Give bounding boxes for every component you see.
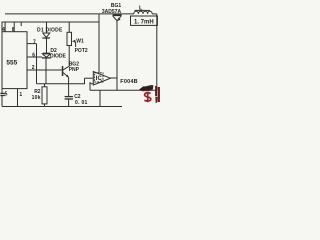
svg-text:3AD57A: 3AD57A bbox=[102, 9, 122, 15]
pin 1 lead bbox=[17, 89, 19, 107]
svg-text:1. 7mH: 1. 7mH bbox=[134, 19, 154, 25]
wire U1 output bbox=[111, 77, 118, 79]
svg-text:POT2: POT2 bbox=[75, 48, 88, 54]
svg-text:8: 8 bbox=[12, 27, 15, 33]
svg-text:0. 01: 0. 01 bbox=[75, 100, 88, 106]
svg-text:R2: R2 bbox=[34, 89, 41, 95]
wire left edge lower bbox=[1, 96, 3, 107]
capacitor C1 plates (left edge) bbox=[0, 92, 5, 94]
svg-text:DIODE: DIODE bbox=[50, 54, 67, 60]
stub x21 bbox=[20, 22, 22, 26]
potentiometer W1 wiper arrow bbox=[72, 40, 75, 43]
resistor R2 bbox=[44, 84, 46, 87]
capacitor C2 plates bbox=[65, 96, 73, 98]
wire D2 down to mid wire bbox=[45, 58, 47, 83]
IC 555 box bbox=[2, 32, 27, 89]
svg-text:F004B: F004B bbox=[120, 79, 138, 85]
diode D2 bbox=[43, 52, 50, 54]
svg-text:W1: W1 bbox=[76, 39, 84, 45]
label IC1 dashed box bbox=[95, 73, 103, 82]
wire right edge bbox=[156, 14, 158, 90]
wire bottom rail bbox=[2, 106, 122, 108]
pin 7 stub bbox=[27, 43, 37, 45]
wire junction vertical x99 bbox=[98, 14, 100, 74]
svg-text:C2: C2 bbox=[74, 94, 81, 100]
wire long bottom horizontal bbox=[90, 89, 157, 91]
wire base line of BG1 (upper horizontal) bbox=[5, 13, 134, 15]
diode D1 lead from rail bbox=[46, 22, 48, 33]
wire riser mid to input bbox=[84, 78, 86, 84]
diode D1 bbox=[43, 33, 50, 37]
wire left edge upper bbox=[1, 22, 3, 93]
inductor L coil bbox=[134, 11, 152, 14]
transistor Q1 collector diagonal left bbox=[113, 16, 117, 21]
wire loop left leg bbox=[89, 82, 91, 90]
wire V1 pins7-6 junction down bbox=[36, 44, 38, 84]
pin 2 wire to BG2 base bbox=[27, 69, 62, 71]
wire riser to bottom rail bbox=[99, 90, 101, 106]
svg-text:7: 7 bbox=[33, 39, 36, 45]
svg-text:PNP: PNP bbox=[69, 67, 80, 73]
wire pot bottom to BG2 collector bbox=[68, 46, 70, 67]
op-amp U1 triangle bbox=[93, 72, 110, 86]
inductor L core line bbox=[135, 9, 151, 11]
wire input to U1 bbox=[85, 77, 94, 79]
artifact dark blob on wire bbox=[139, 85, 153, 91]
transistor Q2 emitter diagonal bbox=[63, 73, 68, 78]
transistor Q1 emitter diagonal bbox=[117, 16, 121, 21]
wire D1-D2 bbox=[46, 38, 48, 53]
svg-text:6: 6 bbox=[32, 53, 35, 59]
wire stub second input bbox=[90, 83, 93, 85]
artifact red stamp glyph bbox=[144, 92, 150, 102]
svg-text:555: 555 bbox=[6, 59, 17, 66]
pin 8 stub bbox=[13, 22, 15, 32]
transistor Q2 BG2 bar bbox=[62, 66, 64, 76]
svg-text:D1 DIODE: D1 DIODE bbox=[37, 27, 63, 33]
potentiometer W1 body bbox=[67, 32, 72, 45]
wire BG2 emitter down bbox=[68, 77, 70, 84]
capacitor C2 lead bbox=[68, 84, 70, 97]
svg-text:2: 2 bbox=[32, 65, 35, 71]
potentiometer W1 lead from rail bbox=[68, 22, 70, 32]
pin 4 stub bbox=[4, 22, 6, 32]
svg-text:5: 5 bbox=[5, 92, 8, 98]
transistor Q1 BG1 bar bbox=[113, 14, 122, 16]
pin 6 stub bbox=[27, 56, 42, 58]
wire mid horizontal bbox=[37, 83, 86, 85]
wire coil to right edge bbox=[152, 13, 157, 15]
svg-text:1: 1 bbox=[19, 92, 22, 98]
transistor Q2 collector diagonal bbox=[63, 66, 69, 70]
wire top rail bbox=[2, 21, 100, 23]
wire BG1 collector vertical bbox=[116, 20, 118, 90]
svg-text:4: 4 bbox=[2, 27, 5, 33]
svg-text:10k: 10k bbox=[32, 95, 41, 101]
artifact right edge red marks bbox=[155, 86, 159, 103]
value box 1.7mH bbox=[131, 16, 158, 25]
